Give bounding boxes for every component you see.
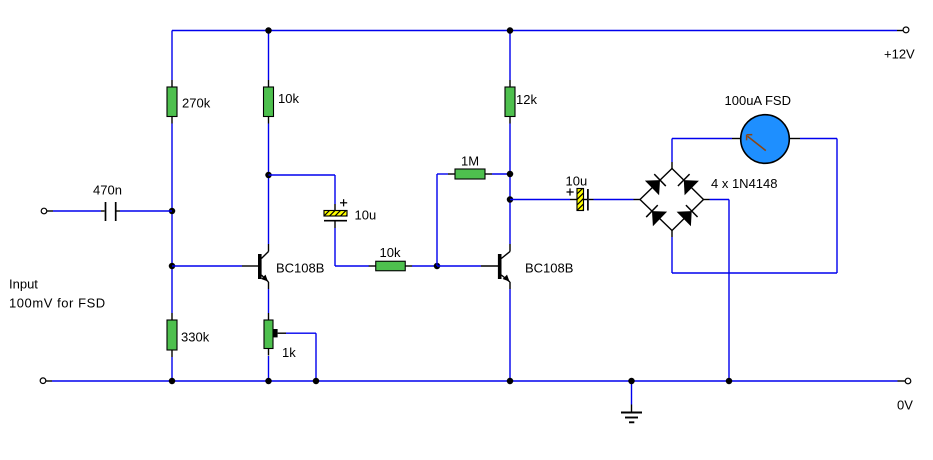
svg-text:10k: 10k	[278, 91, 299, 106]
svg-text:BC108B: BC108B	[525, 260, 573, 275]
svg-text:4 x 1N4148: 4 x 1N4148	[711, 176, 778, 191]
resistor R7 12k	[505, 80, 537, 124]
wire Q2 column top	[509, 31, 511, 81]
wire left column mid	[171, 124, 173, 314]
svg-text:Input: Input	[9, 277, 38, 292]
terminal input	[41, 208, 47, 214]
wire Q2 collector column	[509, 124, 511, 245]
wire loop to bridge bottom	[671, 231, 673, 238]
capacitor C1 470n	[93, 183, 122, 222]
diode D3 bottom-left	[646, 205, 667, 226]
node 1k wiper on 0V	[313, 378, 320, 385]
label Input	[9, 277, 106, 311]
wire ground tap	[631, 381, 633, 412]
diode D2 top-right	[678, 174, 699, 195]
svg-text:10k: 10k	[380, 245, 401, 260]
terminal 0V right	[897, 378, 913, 412]
capacitor C3 10u electrolytic	[555, 173, 610, 210]
wire input to node	[120, 210, 172, 212]
svg-text:470n: 470n	[93, 183, 122, 198]
node Q2 emitter on 0V	[507, 378, 514, 385]
wire 1k wiper to 0V	[286, 333, 316, 381]
wire Q1 base	[172, 265, 258, 267]
resistor R4 1k preset	[264, 313, 296, 360]
capacitor C2 10u electrolytic	[319, 199, 377, 228]
diode D4 bottom-right	[677, 205, 698, 226]
wire C2 to R5	[335, 228, 369, 266]
node output junction	[507, 196, 514, 203]
resistor R1 270k	[167, 80, 211, 124]
resistor R6 1M	[448, 153, 492, 179]
resistor R2 330k	[167, 313, 210, 357]
node left column on 0V	[169, 378, 176, 385]
svg-text:1k: 1k	[282, 345, 296, 360]
svg-text:12k: 12k	[516, 92, 537, 107]
node Q1 collector branch	[265, 172, 272, 179]
wire output to C3	[510, 199, 577, 201]
wire left column top	[171, 31, 173, 81]
label 4 x 1N4148	[711, 176, 778, 191]
transistor Q2 BC108B	[498, 244, 574, 289]
wire node to Q2 base	[437, 265, 498, 267]
node input junction	[169, 208, 176, 215]
wire R6 to Q2 collector column	[492, 173, 510, 175]
wire Q2 emitter	[509, 289, 511, 381]
wire node up to R6	[437, 174, 448, 266]
svg-text:100mV for FSD: 100mV for FSD	[9, 296, 106, 311]
wire collector to C2	[269, 175, 336, 211]
resistor R5 10k	[369, 245, 413, 271]
wire bridge top to meter	[672, 139, 741, 169]
wire meter right loop	[672, 139, 837, 274]
node Q1 column on 0V	[265, 378, 272, 385]
wire input lead	[47, 210, 101, 212]
node 1M feedback junction	[507, 171, 514, 178]
node bridge return on 0V	[726, 378, 733, 385]
node Q1 base junction	[169, 263, 176, 270]
node top rail Q2 column	[507, 27, 514, 34]
wire Q1 emitter bottom	[268, 356, 270, 381]
terminal 0V left	[40, 378, 46, 384]
diode D1 top-left	[645, 174, 666, 195]
wire Q1 collector column	[268, 124, 270, 245]
wire Q1 column top	[268, 31, 270, 81]
wire bridge right to 0V	[704, 200, 730, 382]
svg-text:0V: 0V	[897, 397, 913, 412]
resistor R3 10k	[264, 80, 300, 124]
wire Q1 emitter	[268, 289, 270, 313]
wire C3 to bridge	[594, 199, 641, 201]
svg-text:330k: 330k	[181, 330, 210, 345]
wire 0V bottom rail	[46, 380, 906, 382]
ground symbol	[621, 413, 642, 423]
svg-text:10u: 10u	[355, 208, 377, 223]
node top rail Q1 column	[265, 27, 272, 34]
svg-text:270k: 270k	[182, 95, 211, 110]
svg-text:100uA FSD: 100uA FSD	[725, 93, 792, 108]
meter M1 100uA	[725, 93, 792, 163]
transistor Q1 BC108B	[258, 244, 324, 289]
svg-text:1M: 1M	[461, 153, 479, 168]
wire left column bottom	[171, 357, 173, 381]
wire +12V top rail	[172, 30, 903, 32]
node ground on 0V	[628, 378, 635, 385]
svg-text:+12V: +12V	[884, 47, 915, 62]
svg-text:BC108B: BC108B	[276, 260, 324, 275]
bridge frame	[640, 169, 704, 231]
terminal +12V	[884, 27, 915, 62]
svg-text:10u: 10u	[566, 173, 588, 188]
wire R5 to node	[412, 265, 437, 267]
node Q2 base junction	[434, 263, 441, 270]
